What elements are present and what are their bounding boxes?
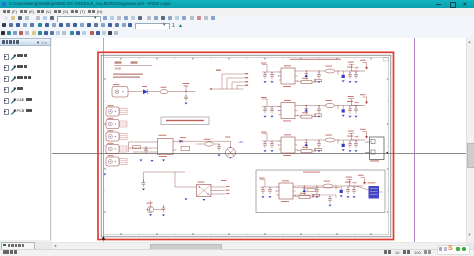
buck converter circuit row 1	[261, 60, 368, 87]
wire row4 aux	[293, 188, 340, 199]
left panel tree	[0, 46, 51, 240]
power symbol +12V	[185, 86, 187, 92]
opto box U11	[181, 146, 190, 150]
drawing boundary horizontal line	[52, 153, 466, 155]
combo row2	[135, 23, 170, 31]
staircase net stubs	[212, 74, 244, 89]
sheet number box top right	[384, 58, 389, 61]
buck converter circuit row 2	[261, 94, 368, 121]
inductor L-f1	[205, 142, 213, 146]
wire	[148, 91, 160, 93]
left panel header	[0, 38, 51, 46]
sogou input bar	[437, 245, 470, 255]
wire	[154, 209, 164, 211]
mid converter block 2	[142, 172, 230, 216]
ground	[151, 160, 154, 162]
input connector CN1	[112, 84, 128, 97]
svg-text:16/08: 16/08	[115, 67, 122, 71]
horizontal scrollbar	[52, 243, 466, 250]
sheet frame	[104, 57, 389, 234]
connector bank J2	[106, 118, 127, 129]
capacitor C-f1	[144, 146, 148, 153]
origin marker triangle	[102, 236, 106, 239]
mid converter block 1	[129, 135, 244, 162]
ground	[185, 199, 188, 201]
resistor R-o1	[307, 189, 316, 192]
panel bottom tab	[1, 242, 35, 249]
bottom tab row	[0, 242, 474, 250]
ground	[329, 205, 332, 207]
ground	[149, 214, 152, 216]
connector bank J1	[106, 105, 127, 116]
connector bank J3	[106, 130, 127, 141]
wire bus	[129, 142, 158, 152]
combo row1	[57, 16, 101, 24]
drawing boundary vertical line right	[414, 38, 416, 242]
ground	[140, 160, 143, 162]
ground	[203, 199, 206, 201]
window buttons	[436, 4, 441, 5]
wire	[168, 91, 196, 93]
IC U10	[158, 139, 174, 155]
title block table	[113, 61, 152, 77]
transistor Q1	[147, 206, 153, 212]
sheet inner border	[101, 55, 391, 237]
diode D-in	[143, 89, 148, 94]
connector J-out	[365, 137, 384, 161]
title bar	[0, 0, 474, 8]
app icon	[2, 2, 6, 6]
buck converter circuit row 3	[261, 129, 368, 156]
title text	[9, 1, 309, 6]
ground	[162, 160, 165, 162]
capacitor C1	[184, 95, 188, 102]
sheet background	[98, 52, 394, 239]
toolbar row 1	[0, 15, 474, 23]
sheet outer red border	[98, 52, 394, 239]
net stub labels	[226, 185, 230, 188]
svg-text:+5V: +5V	[239, 140, 244, 144]
menu bar	[0, 8, 474, 16]
ground	[218, 155, 221, 157]
frame tick marks	[104, 57, 389, 234]
wire	[356, 186, 369, 190]
ground	[142, 189, 145, 191]
connector bank J5	[106, 155, 127, 166]
vertical scrollbar	[466, 38, 474, 242]
connector bank J4	[106, 143, 127, 154]
sheet title text top	[290, 59, 341, 60]
drawing boundary vertical line left	[103, 38, 105, 242]
ground	[103, 174, 106, 176]
resistor R-f1	[133, 146, 141, 149]
toolbar row 2	[0, 22, 474, 30]
capacitor C-n1	[142, 180, 146, 187]
fuse F1	[160, 90, 168, 94]
ground	[185, 103, 188, 105]
transformer T2	[197, 185, 212, 197]
capacitor C-n3	[162, 205, 166, 212]
capacitor C-f2	[217, 144, 221, 151]
wire	[128, 91, 143, 93]
buck converter circuit row 4	[259, 175, 366, 202]
notes box	[161, 117, 209, 125]
status bar	[0, 249, 474, 256]
wire	[144, 172, 226, 194]
node junction	[185, 91, 186, 92]
capacitor C-o1	[328, 196, 332, 203]
wire	[177, 140, 226, 142]
toolbar row 3	[0, 29, 474, 39]
motor symbol M1	[226, 148, 236, 158]
diode arrow D-f1	[180, 140, 183, 143]
group box output stage	[256, 170, 385, 213]
EMI filter block	[356, 182, 383, 198]
frame zone numbers	[104, 58, 388, 235]
ground	[162, 215, 165, 217]
canvas	[52, 38, 466, 242]
node junction on boundary line	[386, 152, 388, 154]
